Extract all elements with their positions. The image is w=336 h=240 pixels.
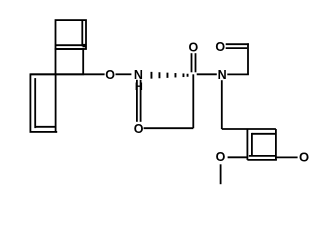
ring C inner double-bond vertical [34, 78, 36, 128]
bond ring D to O5 [276, 156, 298, 158]
ring B (middle square ring) [56, 49, 84, 74]
ring D right vertical [275, 129, 277, 160]
bond N2 to CH2 (right) [227, 73, 249, 75]
svg-text:H: H [135, 81, 143, 93]
svg-text:N: N [134, 68, 143, 82]
ring A (top square benzo ring) [56, 20, 87, 49]
ring A inner double-bond horizontal [56, 44, 86, 46]
bond CH2 up to aldehyde C3 [247, 43, 249, 74]
bond CH2 corner up to C1 [192, 74, 194, 128]
ring D inner double-bond top horizontal [252, 133, 275, 135]
ring D inner double-bond left vertical [251, 133, 253, 156]
hashed stereo bond N1...C1 [151, 72, 189, 79]
bond O1b to CH2 corner [144, 127, 194, 129]
ring D left vertical [246, 129, 248, 160]
svg-text:O: O [105, 68, 115, 82]
ring C inner double-bond horizontal [35, 126, 55, 128]
wire chain bond ring to O1 [30, 73, 104, 75]
bond O1-N1 [116, 73, 132, 75]
svg-text:O: O [134, 122, 144, 136]
carbonyl C1=O2 double bond (line 2) [195, 53, 197, 72]
bond C1 to N2 [197, 73, 217, 75]
double bond N1 down to O1b (line 2) [140, 80, 142, 122]
svg-text:O: O [299, 149, 309, 164]
ring D inner double-bond bottom horizontal [249, 155, 275, 157]
double bond N1 down to O1b (line 1) [136, 80, 138, 122]
carbonyl C1=O2 double bond (line 1) [191, 53, 193, 72]
aldehyde C3=O3 double bond (line 1) [226, 43, 249, 45]
ring C (lower-left rectangle ring) [30, 74, 55, 132]
svg-text:O: O [216, 150, 226, 164]
svg-text:O: O [215, 40, 225, 54]
svg-text:N: N [218, 68, 227, 82]
bond N2 down to benzylic CH2 [221, 80, 223, 129]
ring D bottom edge [247, 159, 277, 161]
aldehyde C3=O3 double bond (line 2) [226, 47, 248, 49]
ring A inner double-bond vertical [81, 20, 83, 46]
bond O4 to methyl [220, 164, 222, 184]
ring C bottom edge overhang [56, 131, 58, 133]
svg-text:O: O [189, 40, 199, 54]
bond benzylic CH2 to ring D top edge [222, 128, 276, 130]
bond O4 to ring D [228, 156, 248, 158]
ring A inner corner dot [83, 44, 86, 47]
